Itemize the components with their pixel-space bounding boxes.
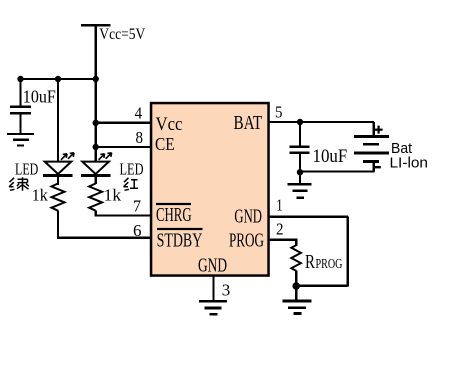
svg-text:STDBY: STDBY [157, 229, 203, 251]
svg-text:10uF: 10uF [313, 147, 348, 167]
svg-text:7: 7 [133, 197, 141, 216]
svg-text:1k: 1k [104, 186, 122, 205]
svg-text:8: 8 [136, 128, 144, 147]
svg-text:4: 4 [135, 104, 143, 123]
svg-text:CHRG: CHRG [156, 204, 192, 226]
svg-text:3: 3 [222, 281, 231, 300]
svg-text:Vcc=5V: Vcc=5V [99, 26, 146, 43]
svg-text:CE: CE [155, 134, 175, 154]
svg-text:GND: GND [198, 255, 227, 277]
svg-text:PROG: PROG [316, 257, 343, 272]
svg-text:Vcc: Vcc [156, 114, 183, 135]
svg-text:GND: GND [234, 206, 262, 228]
svg-text:1: 1 [276, 196, 283, 215]
svg-text:PROG: PROG [229, 229, 264, 251]
svg-text:LI-lon: LI-lon [390, 154, 429, 171]
svg-text:10uF: 10uF [23, 86, 56, 106]
svg-text:2: 2 [276, 220, 284, 239]
svg-text:1k: 1k [32, 186, 48, 205]
svg-text:BAT: BAT [234, 112, 263, 134]
svg-text:6: 6 [133, 221, 142, 240]
svg-text:R: R [305, 252, 315, 273]
svg-text:5: 5 [275, 102, 283, 121]
svg-text:LED: LED [15, 159, 38, 178]
svg-text:LED: LED [120, 159, 144, 178]
